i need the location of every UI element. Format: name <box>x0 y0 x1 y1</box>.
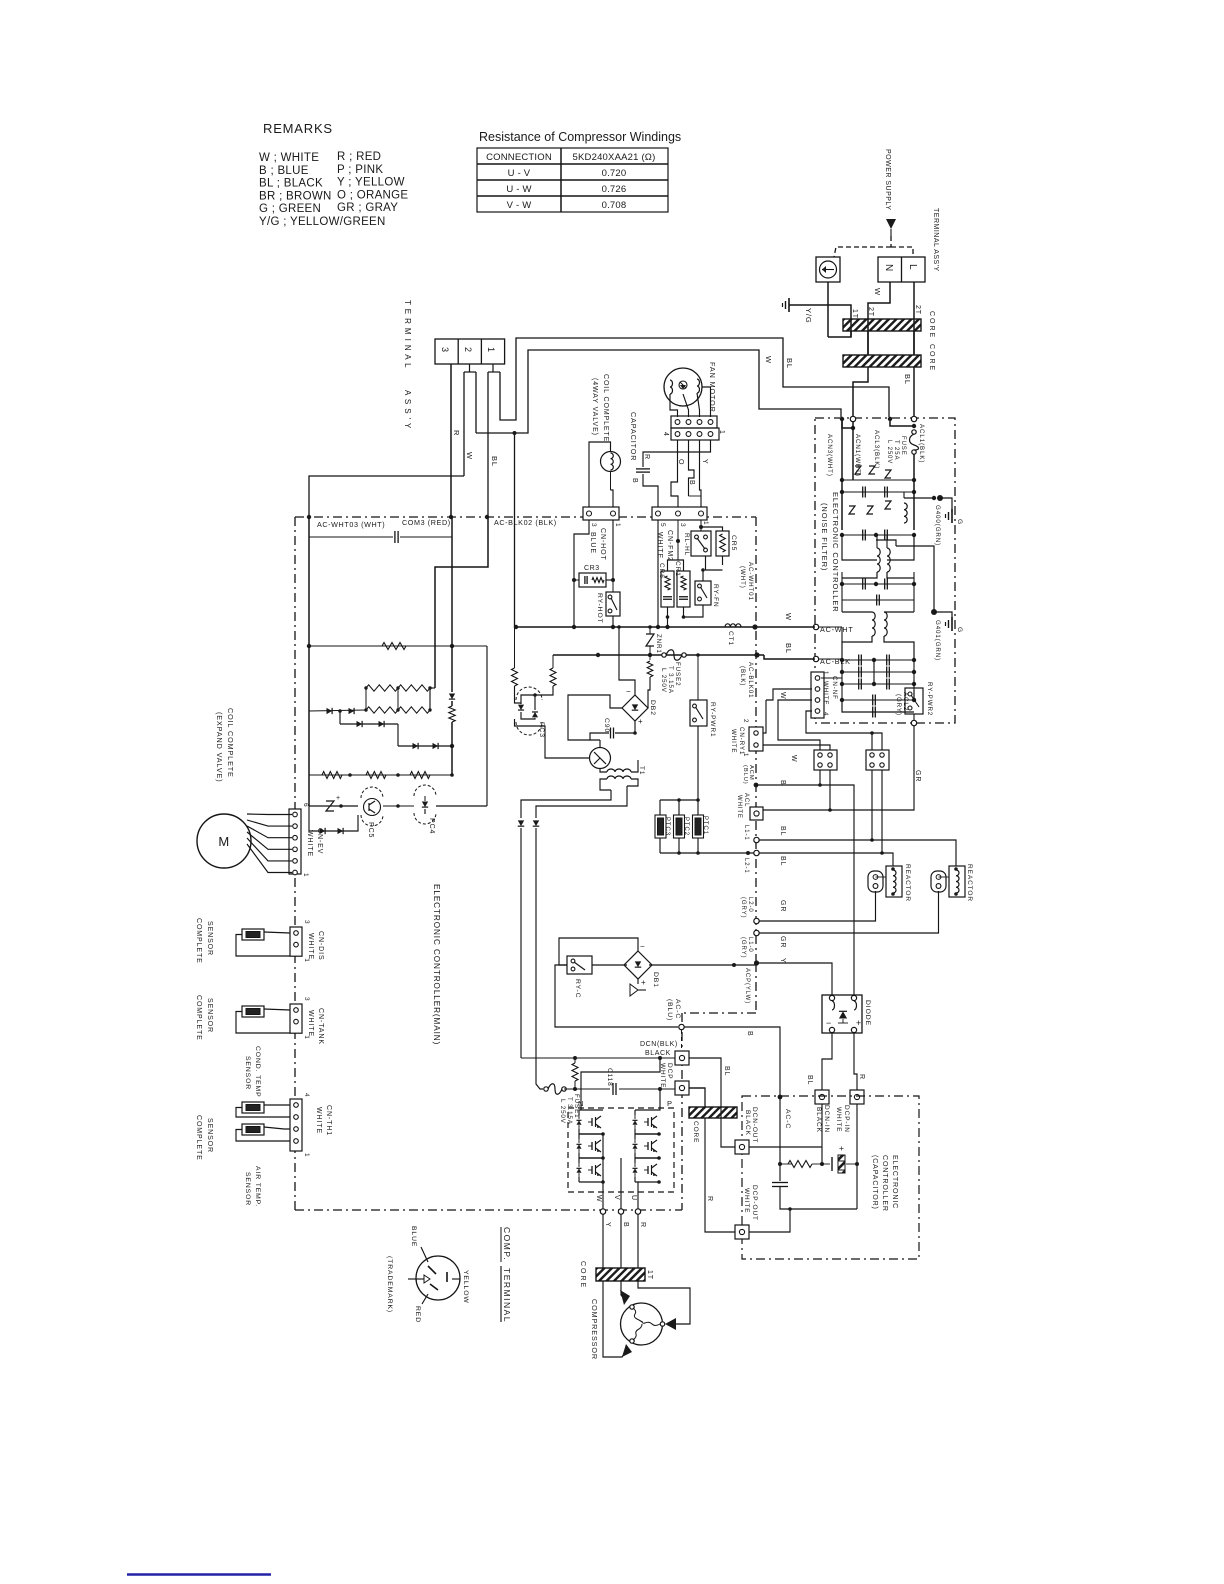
terminal N L box <box>878 257 925 282</box>
footer line <box>127 1573 271 1575</box>
svg-text:Y ; YELLOW: Y ; YELLOW <box>337 177 405 189</box>
svg-text:CR1: CR1 <box>674 561 681 577</box>
svg-text:AC-WHT03 (WHT): AC-WHT03 (WHT) <box>317 520 385 529</box>
diode bridge DB1 <box>624 951 652 979</box>
svg-text:DB2: DB2 <box>649 700 656 716</box>
svg-text:PTC2: PTC2 <box>683 817 689 836</box>
wire DB1 top loop <box>559 938 638 965</box>
wire B down inside box <box>779 1097 781 1181</box>
svg-text:1: 1 <box>303 1035 310 1040</box>
comp terminal circle <box>416 1256 460 1300</box>
wire CN-NF pin2 W out <box>766 689 812 700</box>
svg-text:B: B <box>631 478 638 484</box>
svg-text:GR: GR <box>779 900 786 912</box>
capacitor fan <box>636 468 650 470</box>
ptc PTC2 <box>674 815 685 838</box>
connector CN-NF WHITE <box>811 672 824 718</box>
wire CN-FM2 pin5 down <box>657 520 659 627</box>
svg-text:0.708: 0.708 <box>602 200 627 211</box>
svg-text:4: 4 <box>662 432 669 437</box>
svg-text:SENSOR: SENSOR <box>244 1056 251 1090</box>
svg-text:REACTOR: REACTOR <box>966 864 973 902</box>
svg-text:RY-PWR2: RY-PWR2 <box>926 682 933 716</box>
svg-text:B: B <box>779 780 786 786</box>
svg-text:DCN-IN: DCN-IN <box>823 1105 830 1133</box>
svg-text:B: B <box>746 1031 753 1037</box>
comp terminal pointer yellow <box>452 1278 460 1280</box>
current transformer CT1 <box>725 624 741 627</box>
wire PC3 to triac <box>515 719 591 758</box>
svg-text:L 250V: L 250V <box>886 440 892 464</box>
svg-text:W ; WHITE: W ; WHITE <box>259 152 319 164</box>
svg-text:T 3.15A: T 3.15A <box>667 666 674 694</box>
diode row y711 <box>308 646 310 711</box>
node ACP <box>754 960 759 965</box>
svg-text:R: R <box>639 1222 646 1228</box>
noise filter cap row y600 <box>841 584 843 612</box>
wires motor to CN-EV <box>247 813 292 816</box>
svg-text:CORE: CORE <box>692 1121 699 1143</box>
inverter module dashed box <box>568 1108 674 1192</box>
wire ACN1 down <box>852 421 854 480</box>
wire DCN right <box>689 1058 735 1147</box>
wire PC row <box>308 775 310 806</box>
svg-text:ACL2: ACL2 <box>902 692 909 711</box>
svg-text:BL ; BLACK: BL ; BLACK <box>259 178 323 190</box>
svg-text:(NOISE FILTER): (NOISE FILTER) <box>820 503 829 571</box>
svg-text:−: − <box>640 942 645 951</box>
wire CN-HOT pin3 down <box>574 520 589 627</box>
diode on R line <box>451 646 453 692</box>
svg-text:BL: BL <box>723 1066 730 1076</box>
svg-text:BLACK: BLACK <box>815 1107 822 1133</box>
svg-text:R: R <box>858 1074 865 1080</box>
svg-text:B: B <box>688 480 695 486</box>
svg-text:BL: BL <box>779 856 786 866</box>
svg-text:+: + <box>336 795 341 802</box>
svg-text:P ; PINK: P ; PINK <box>337 164 383 176</box>
svg-text:G401(GRN): G401(GRN) <box>934 620 941 661</box>
triac Q <box>590 748 611 769</box>
svg-text:1: 1 <box>486 347 496 352</box>
svg-text:L: L <box>907 264 918 270</box>
svg-text:0.720: 0.720 <box>602 168 627 179</box>
svg-text:CN-TANK: CN-TANK <box>317 1008 324 1045</box>
common mode choke 2 <box>872 612 875 636</box>
svg-text:BLUE: BLUE <box>410 1226 417 1247</box>
wire RY-C to DB1 to ACP junction <box>592 964 627 966</box>
zener diode with + mark <box>326 801 334 811</box>
svg-text:COMPLETE: COMPLETE <box>195 918 202 964</box>
wire earth Y/G <box>827 282 829 337</box>
ptc rail bottom <box>659 838 661 853</box>
svg-text:(BLK): (BLK) <box>739 666 746 686</box>
node L1-1 <box>754 837 759 842</box>
relay RY-FN <box>695 581 711 605</box>
noise filter lower cap grid row2 <box>842 671 914 673</box>
wire y746 row <box>398 745 452 747</box>
svg-text:GR ; GRAY: GR ; GRAY <box>337 202 398 214</box>
svg-text:P: P <box>667 1099 673 1108</box>
wire CN-HOT pin1 down <box>612 520 614 580</box>
svg-text:Y/G ; YELLOW/GREEN: Y/G ; YELLOW/GREEN <box>259 216 386 228</box>
connector DCP-IN WHITE <box>850 1090 864 1104</box>
reactor 1 connector <box>868 871 883 892</box>
wire CN-RY1 pin1 to block <box>763 745 830 750</box>
electronic controller main boundary <box>295 516 756 518</box>
wire AC-C dashed to DCN <box>681 1030 683 1051</box>
svg-text:(GRY): (GRY) <box>895 694 902 716</box>
ptc rail top <box>660 799 698 801</box>
svg-text:PC5: PC5 <box>367 822 374 838</box>
svg-text:G: G <box>956 519 963 525</box>
thyristor under DB1 <box>637 979 639 984</box>
reactor 2 <box>949 866 965 897</box>
wire B row <box>756 785 854 998</box>
wire between cores <box>867 331 869 355</box>
svg-text:ZNR1: ZNR1 <box>655 634 662 654</box>
svg-text:BLUE: BLUE <box>589 532 596 554</box>
power supply arrow <box>886 219 896 229</box>
svg-text:G: G <box>956 627 963 633</box>
connector block relay pwr right <box>866 750 889 770</box>
node W bus right <box>752 624 757 629</box>
wire DB2 bottom to C90 node <box>634 721 636 733</box>
svg-text:CN-HOT: CN-HOT <box>599 528 606 561</box>
svg-text:RY-C: RY-C <box>574 979 581 998</box>
wire BL from L <box>913 282 915 355</box>
ground G400 <box>937 495 943 501</box>
electronic controller noise filter box <box>815 418 955 723</box>
wire dashed power feed <box>890 236 892 247</box>
component CR6 <box>661 571 674 607</box>
chassis ground <box>788 298 790 312</box>
svg-text:CN-NF: CN-NF <box>831 676 838 700</box>
svg-text:TERMINAL ASS'Y: TERMINAL ASS'Y <box>932 208 939 272</box>
transformer T1 <box>607 769 631 772</box>
svg-text:DCP: DCP <box>666 1063 673 1079</box>
connector CN-EV WHITE <box>289 809 301 874</box>
igbt Q row1 left <box>591 1118 593 1126</box>
resistor N-P bleed <box>572 1063 578 1081</box>
noise filter lower cap grid row1 <box>842 659 914 661</box>
wire cap R to pin1 <box>643 440 711 467</box>
node AC-C circle <box>679 1024 684 1029</box>
noise filter cap row y584 <box>841 572 843 584</box>
resistor to DB2 <box>649 655 651 660</box>
svg-text:AC-WHT: AC-WHT <box>820 625 854 634</box>
diode rectifier left <box>518 820 524 826</box>
svg-text:DCP-IN: DCP-IN <box>843 1105 850 1133</box>
svg-text:1: 1 <box>702 521 709 526</box>
svg-text:PC4: PC4 <box>428 818 435 834</box>
node AC-WHT <box>813 624 818 629</box>
svg-text:L2-0: L2-0 <box>747 897 753 913</box>
svg-text:AC-C: AC-C <box>674 999 681 1019</box>
wire ACL1 down <box>913 454 915 480</box>
svg-text:CORE: CORE <box>928 311 935 339</box>
svg-text:1T: 1T <box>851 309 858 319</box>
svg-text:2: 2 <box>742 719 749 723</box>
svg-text:DIODE: DIODE <box>864 1000 871 1026</box>
svg-text:COIL COMPLETE: COIL COMPLETE <box>226 708 235 778</box>
diode bridge DB2 <box>622 695 648 721</box>
svg-text:CORE: CORE <box>928 344 935 372</box>
capacitor plain in box <box>772 1182 788 1184</box>
svg-text:DCP-OUT: DCP-OUT <box>751 1185 758 1221</box>
wire RY-C left to AC-C rail <box>555 965 678 1027</box>
svg-text:3: 3 <box>303 997 310 1002</box>
diode row y724 <box>340 723 398 725</box>
svg-text:RY-FN: RY-FN <box>712 584 719 608</box>
fuse FUSE2 <box>662 653 666 657</box>
svg-text:RED: RED <box>414 1306 421 1323</box>
svg-text:L1-0: L1-0 <box>747 937 753 953</box>
svg-text:O ; ORANGE: O ; ORANGE <box>337 189 408 201</box>
svg-text:REMARKS: REMARKS <box>263 121 333 136</box>
coil complete 4way valve <box>601 452 621 472</box>
svg-text:SENSOR: SENSOR <box>206 921 213 956</box>
resistor row y775 <box>308 711 310 775</box>
svg-text:DB1: DB1 <box>652 972 659 988</box>
diode rectifier right <box>533 820 539 826</box>
svg-text:BR ; BROWN: BR ; BROWN <box>259 190 332 202</box>
svg-text:CORE: CORE <box>579 1261 586 1289</box>
svg-text:FUSE2: FUSE2 <box>674 662 681 686</box>
wire inverter outputs <box>602 1134 604 1209</box>
svg-text:CR5: CR5 <box>730 535 737 551</box>
connector DCN-IN BLACK <box>815 1090 829 1104</box>
svg-text:FUSE: FUSE <box>900 436 906 456</box>
svg-text:1T: 1T <box>646 1270 653 1280</box>
svg-text:WHITE: WHITE <box>743 1188 750 1213</box>
svg-text:1: 1 <box>822 671 829 675</box>
svg-text:R: R <box>452 430 461 436</box>
svg-text:RY-HOT: RY-HOT <box>596 593 603 624</box>
wire N feed down <box>520 828 522 1058</box>
capacitor C90 <box>610 728 612 739</box>
wire reactor2 links <box>939 876 950 878</box>
connector CN-TANK <box>290 1004 302 1033</box>
svg-text:BL: BL <box>784 643 793 654</box>
wire DCP through core3 <box>689 1088 705 1107</box>
node L2-0 <box>754 918 759 923</box>
svg-text:AC-C: AC-C <box>784 1109 791 1129</box>
resistor W bus drop left <box>514 627 516 668</box>
wire CN-FM2 pin1 down <box>700 520 702 531</box>
wire R below core <box>638 1281 690 1324</box>
thermistor air temp <box>242 1124 264 1135</box>
svg-text:RY-PWR1: RY-PWR1 <box>709 702 716 738</box>
svg-text:(TRADEMARK): (TRADEMARK) <box>386 1256 393 1313</box>
svg-text:L 250V: L 250V <box>559 1099 566 1124</box>
wire DCP-IN down <box>856 1104 858 1209</box>
svg-text:1: 1 <box>303 958 310 963</box>
svg-text:CN-EV: CN-EV <box>316 828 323 854</box>
wire 4way to CN-HOT <box>589 442 611 507</box>
wire DCN-OUT right <box>749 1146 822 1148</box>
opto coupler PC4 <box>414 785 436 796</box>
wire W from N <box>868 282 890 355</box>
svg-text:CN-TH1: CN-TH1 <box>325 1105 332 1136</box>
fuse 25A in noise filter <box>912 430 916 434</box>
svg-text:A S S ' Y: A S S ' Y <box>403 390 412 429</box>
wire P rail <box>564 1088 610 1090</box>
node AC-BLK <box>813 656 818 661</box>
svg-text:C118: C118 <box>606 1068 613 1087</box>
svg-text:CR3: CR3 <box>584 565 600 572</box>
common mode choke 1 <box>877 548 880 572</box>
resistor ladder block <box>434 646 436 688</box>
wire W main bus <box>515 626 816 628</box>
wire inverter N vertical <box>581 1058 660 1110</box>
svg-text:0.726: 0.726 <box>602 184 627 195</box>
wire W core to ACN1 <box>853 367 868 416</box>
connector CN-HOT BLUE <box>583 507 619 520</box>
diode bridge DIODE <box>822 995 862 1033</box>
ptc PTC3 <box>655 815 666 838</box>
connector CN-DIS <box>290 927 302 956</box>
fuse FUSE1 <box>544 1087 548 1091</box>
wire W from terminal 2 <box>469 364 471 372</box>
wire AC-BLK02 net down <box>486 646 488 806</box>
svg-text:WHITE: WHITE <box>659 1063 666 1088</box>
wire N rail <box>521 1057 677 1059</box>
svg-text:M: M <box>218 834 229 849</box>
component CR1 <box>677 571 690 607</box>
wire cap B down to CN-FM2 pin5 <box>643 474 658 507</box>
svg-text:U - V: U - V <box>508 168 531 179</box>
svg-text:−: − <box>826 1018 832 1028</box>
svg-text:COMPRESSOR: COMPRESSOR <box>590 1299 599 1360</box>
wire BL core to ACL1 <box>913 367 915 416</box>
svg-text:2: 2 <box>463 347 473 352</box>
svg-text:CAPACITOR: CAPACITOR <box>629 412 638 461</box>
noise filter row2 caps <box>842 491 914 493</box>
wire PC4 connections <box>398 805 414 807</box>
svg-text:COND. TEMP: COND. TEMP <box>254 1046 261 1098</box>
reactor 2 connector <box>931 871 946 892</box>
svg-text:(GRY): (GRY) <box>740 897 746 918</box>
svg-text:B: B <box>622 1222 629 1228</box>
svg-text:BL: BL <box>779 826 786 836</box>
svg-text:T 25A: T 25A <box>893 440 899 460</box>
wire R down to resistor row <box>451 537 453 646</box>
svg-text:T E R M I N A L: T E R M I N A L <box>403 300 412 368</box>
svg-text:REACTOR: REACTOR <box>904 864 911 902</box>
motor M expand valve <box>197 814 251 868</box>
svg-text:WHITE: WHITE <box>315 1107 322 1134</box>
wire AC-C to B wire right <box>684 1027 780 1096</box>
node G401 junction <box>931 609 937 615</box>
svg-text:AC-BLK01: AC-BLK01 <box>747 662 754 698</box>
svg-text:CT1: CT1 <box>727 631 734 646</box>
svg-text:SENSOR: SENSOR <box>244 1172 251 1206</box>
electronic controller capacitor box <box>742 1096 919 1259</box>
opto coupler PC5 <box>339 804 343 808</box>
svg-text:CONNECTION: CONNECTION <box>486 152 552 163</box>
svg-text:3: 3 <box>440 347 450 352</box>
wire B down <box>620 1214 622 1268</box>
relay RY-C <box>567 956 592 974</box>
svg-text:+: + <box>641 978 646 987</box>
svg-text:ACL1(BLK): ACL1(BLK) <box>918 424 925 463</box>
svg-text:POWER SUPPLY: POWER SUPPLY <box>884 149 891 211</box>
svg-text:Resistance of Compressor Windi: Resistance of Compressor Windings <box>479 130 681 144</box>
svg-text:W: W <box>764 356 773 364</box>
relay RL-HL <box>691 531 711 556</box>
wire DCP-OUT right <box>749 1209 790 1232</box>
svg-text:(BLU): (BLU) <box>666 999 673 1021</box>
bleed resistor in cap box <box>788 1161 812 1168</box>
wire fan pin2 to CN-FM2 pin1 <box>700 440 702 507</box>
compressor motor <box>621 1303 663 1345</box>
ptc PTC1 <box>693 815 704 838</box>
svg-text:BLACK: BLACK <box>645 1050 671 1057</box>
svg-text:RL-HL: RL-HL <box>683 533 690 556</box>
thermistor sensor element <box>242 929 264 940</box>
noise filter varistor pair row3 <box>849 506 855 514</box>
svg-text:ELECTRONIC: ELECTRONIC <box>891 1155 898 1209</box>
node AC-BLK02 <box>485 515 489 519</box>
svg-text:W: W <box>873 288 882 296</box>
sensor complete TH1 <box>290 1099 302 1151</box>
svg-text:3: 3 <box>590 523 597 528</box>
svg-text:ACP(YLW): ACP(YLW) <box>744 968 750 1004</box>
wire R down <box>637 1214 639 1268</box>
noise filter bottom caps <box>842 699 914 701</box>
svg-text:AC-BLK: AC-BLK <box>820 657 851 666</box>
svg-text:CONTROLLER: CONTROLLER <box>881 1155 888 1212</box>
svg-text:WHITE: WHITE <box>822 681 829 705</box>
svg-text:WHITE: WHITE <box>307 933 314 960</box>
svg-text:(BLU): (BLU) <box>742 765 748 785</box>
noise filter row1 varistors <box>841 421 843 480</box>
connector ACL WHITE <box>750 807 763 820</box>
terminal block 3 2 1 <box>435 339 505 364</box>
node L1-0 <box>754 930 759 935</box>
thermistor cond temp <box>242 1102 264 1113</box>
svg-text:+: + <box>856 1018 862 1028</box>
node ACN3 <box>840 417 844 421</box>
svg-text:WHITE: WHITE <box>307 1010 314 1037</box>
svg-text:ACL3(BLK): ACL3(BLK) <box>873 430 880 469</box>
svg-text:WHITE: WHITE <box>656 532 663 559</box>
svg-text:BL: BL <box>903 374 912 385</box>
svg-text:G ; GREEN: G ; GREEN <box>259 203 321 215</box>
svg-text:3: 3 <box>303 920 310 925</box>
node ACL1 <box>911 416 916 421</box>
wire diode minus to DCN-IN <box>822 1033 832 1090</box>
svg-text:U: U <box>630 1195 637 1201</box>
wire fan pin4 down <box>671 440 678 507</box>
capacitor C118 <box>612 1083 614 1095</box>
fan connector row2 <box>671 428 719 440</box>
ground G401 <box>934 612 952 620</box>
svg-text:COM3 (RED): COM3 (RED) <box>402 518 451 527</box>
connector DCP-OUT WHITE <box>735 1225 749 1239</box>
wire ACL3 to ACL1 link <box>890 421 914 426</box>
node ACN1 <box>850 416 855 421</box>
connector CN-RY1 WHITE <box>749 727 763 751</box>
wire BLK main bus <box>553 654 764 656</box>
igbt Q row2 right <box>647 1142 649 1150</box>
svg-text:WHITE: WHITE <box>306 830 313 857</box>
wire DCN-IN down <box>821 1104 823 1164</box>
svg-text:G400(GRN): G400(GRN) <box>934 505 941 546</box>
wire inverter P vertical <box>659 1089 660 1110</box>
noise filter lower cap grid row3 <box>842 683 914 685</box>
